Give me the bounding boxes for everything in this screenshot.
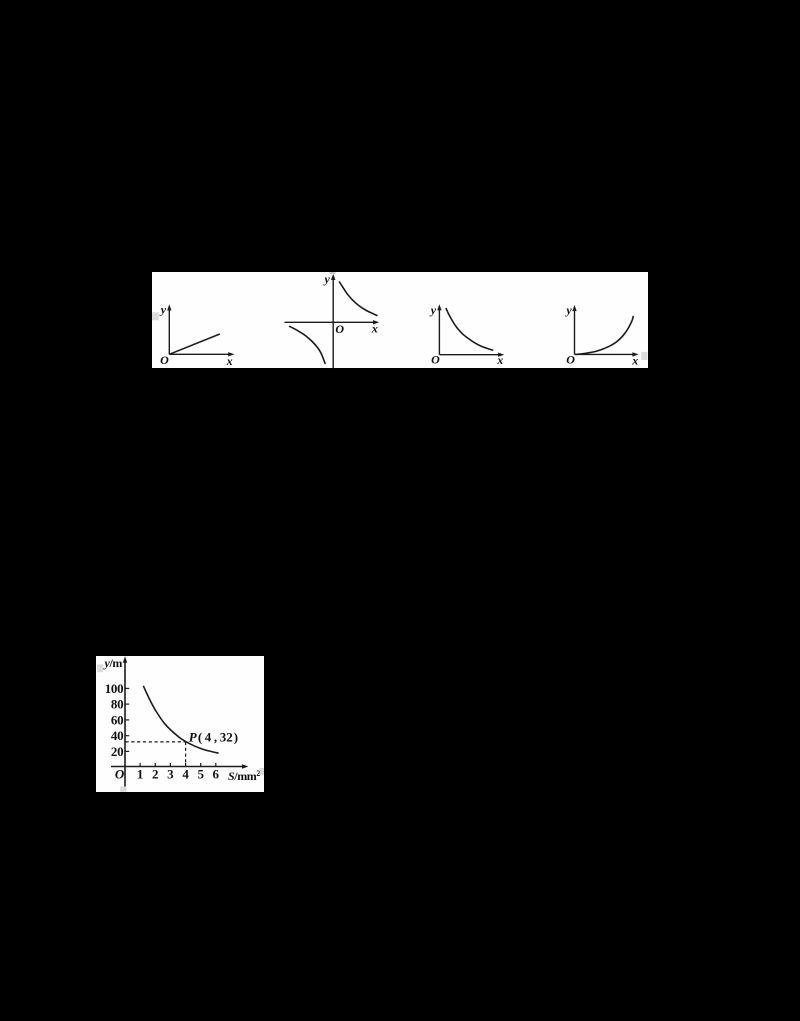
graph C: x-axis xyxy=(439,354,500,356)
graph D: y-axis arrowhead xyxy=(572,305,576,311)
svg-text:O: O xyxy=(335,322,344,336)
watermark remnant: panel right gray block xyxy=(260,768,264,775)
chart: inverse-proportion curve xyxy=(143,686,218,753)
svg-text:y: y xyxy=(159,303,167,317)
chart: dashed horizontal guide to y=32 xyxy=(126,741,186,743)
svg-text:5: 5 xyxy=(197,767,204,782)
graph A: y-axis xyxy=(169,309,230,355)
chart: y-axis arrowhead xyxy=(123,656,127,663)
chart: dashed vertical guide at x=4 xyxy=(185,742,187,767)
svg-text:60: 60 xyxy=(111,712,123,727)
graph B: y-axis xyxy=(285,278,376,369)
graph D: y-axis xyxy=(575,309,635,355)
svg-text:y/m: y/m xyxy=(103,656,123,670)
svg-text:x: x xyxy=(226,354,233,368)
svg-text:100: 100 xyxy=(105,681,124,696)
svg-text:x: x xyxy=(631,353,638,367)
graph B: hyperbola upper-right branch xyxy=(339,282,377,316)
white figure strip (four option graphs) xyxy=(152,272,648,368)
svg-text:3: 3 xyxy=(167,767,174,782)
graph C: y-axis xyxy=(439,308,500,355)
svg-text:20: 20 xyxy=(111,744,123,759)
watermark remnant: strip A right gray block xyxy=(641,352,647,360)
svg-text:x: x xyxy=(371,322,378,336)
svg-text:O: O xyxy=(431,352,440,366)
svg-text:40: 40 xyxy=(111,728,123,743)
svg-text:S/mm2: S/mm2 xyxy=(228,769,260,783)
svg-text:y: y xyxy=(323,272,331,286)
chart: x-axis tick marks xyxy=(140,763,216,767)
svg-text:2: 2 xyxy=(152,767,159,782)
watermark remnant: panel bottom gray block xyxy=(120,787,126,792)
graph B: x-axis xyxy=(285,321,376,323)
white figure panel (inverse-proportion chart) xyxy=(96,656,264,792)
svg-text:1: 1 xyxy=(137,767,144,782)
watermark remnant: strip A top gray block xyxy=(330,272,336,274)
chart: y-axis xyxy=(111,661,245,788)
chart: x-axis xyxy=(111,766,245,768)
svg-text:4: 4 xyxy=(182,767,189,782)
graph A: y-axis arrowhead xyxy=(167,304,171,310)
graph B: x-axis arrowhead xyxy=(373,320,379,324)
chart: x-axis arrowhead xyxy=(242,764,248,768)
svg-text:80: 80 xyxy=(111,697,123,712)
graph D: increasing curve from origin xyxy=(575,316,633,355)
chart: y-axis tick marks xyxy=(125,688,129,751)
svg-text:y: y xyxy=(564,303,572,317)
graph A: x-axis arrowhead xyxy=(228,352,234,356)
graph D: x-axis arrowhead xyxy=(632,352,638,356)
watermark remnant: strip A left gray block xyxy=(152,312,159,320)
graph B: hyperbola lower-left branch xyxy=(289,326,325,364)
svg-text:P ( 4 , 32 ): P ( 4 , 32 ) xyxy=(189,730,238,745)
watermark remnant: panel left gray block xyxy=(97,664,103,672)
graph C: decreasing curve in first quadrant xyxy=(446,308,493,350)
graph C: x-axis arrowhead xyxy=(498,353,504,357)
svg-text:O: O xyxy=(160,353,169,367)
graph B: y-axis arrowhead xyxy=(331,274,335,280)
graph D: x-axis xyxy=(575,353,635,355)
svg-text:y: y xyxy=(429,303,437,317)
svg-text:O: O xyxy=(566,353,575,367)
graph A: x-axis xyxy=(169,353,230,355)
graph C: y-axis arrowhead xyxy=(437,304,441,310)
graph A: straight line through origin xyxy=(169,334,220,354)
svg-text:O: O xyxy=(115,767,125,782)
svg-text:6: 6 xyxy=(213,767,220,782)
svg-text:x: x xyxy=(496,353,503,367)
